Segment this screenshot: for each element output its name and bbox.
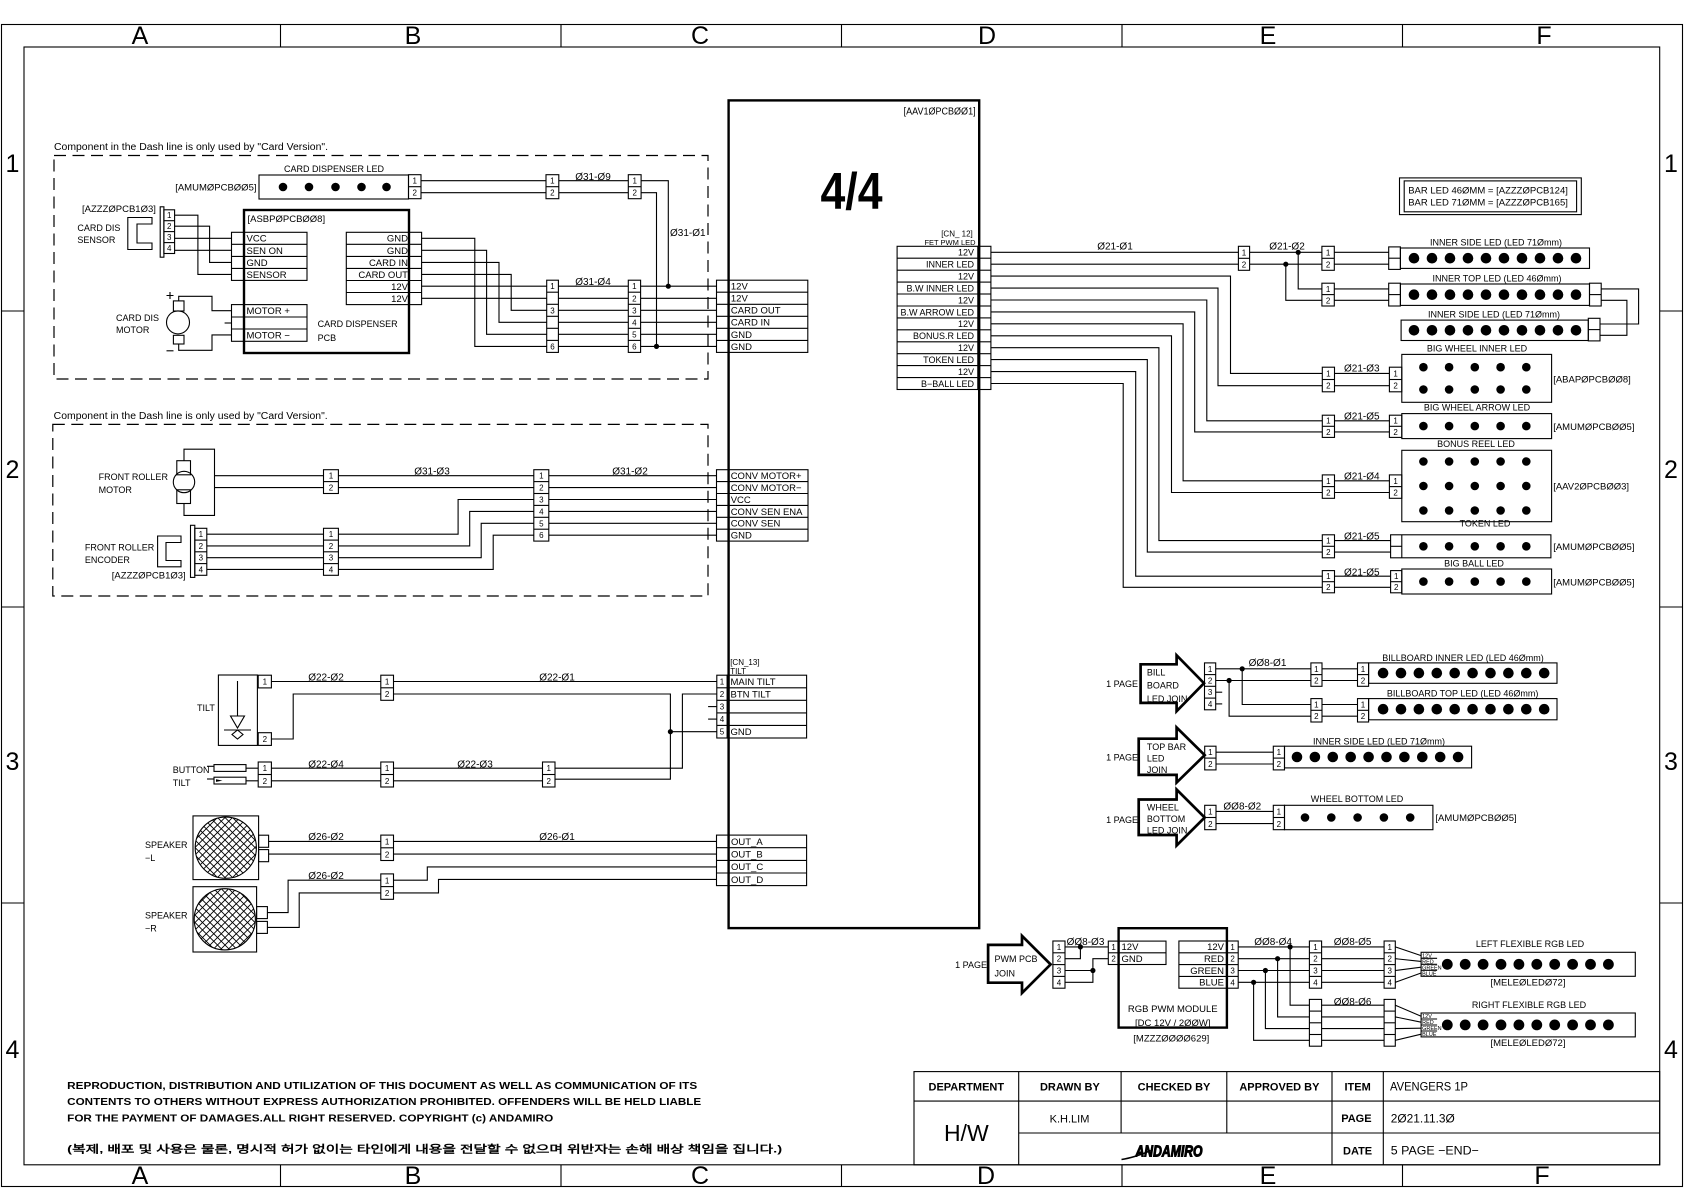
wire branch to top led block pin2 — [1229, 681, 1311, 717]
svg-text:BAR LED 46ØMM = [AZZZØPCB124]: BAR LED 46ØMM = [AZZZØPCB124] — [1408, 186, 1568, 197]
svg-text:2: 2 — [1326, 260, 1331, 269]
svg-text:OUT_A: OUT_A — [731, 837, 763, 848]
svg-text:2: 2 — [550, 189, 555, 198]
LED panel BIG WHEEL INNER LED ABAP0PCB008 — [1389, 344, 1630, 403]
svg-text:2: 2 — [412, 189, 417, 198]
wire CN_12 row4 B.W INNER to 021-03 — [991, 288, 1322, 386]
svg-text:1: 1 — [1230, 943, 1235, 952]
svg-text:1: 1 — [632, 282, 637, 291]
svg-text:INNER SIDE LED (LED 71Ømm): INNER SIDE LED (LED 71Ømm) — [1313, 736, 1445, 746]
connector CN_12 FET PWM LED header — [924, 230, 976, 248]
wire CN_12 row7 12V to 021-04 — [991, 324, 1322, 481]
svg-text:BLUE: BLUE — [1422, 972, 1437, 978]
billboard join pins 1-4 — [1205, 663, 1216, 710]
svg-text:D: D — [978, 22, 996, 50]
svg-text:4: 4 — [167, 244, 172, 253]
svg-text:4: 4 — [1057, 978, 1062, 987]
svg-text:PWM PCB: PWM PCB — [995, 954, 1038, 964]
RGB PWM MODULE box MZZZ0000629 — [1119, 928, 1227, 1044]
svg-text:2: 2 — [1111, 955, 1116, 964]
svg-text:B−BALL LED: B−BALL LED — [921, 379, 974, 389]
svg-text:JOIN: JOIN — [1147, 765, 1168, 775]
connector 021-02 block — [1322, 246, 1334, 270]
connector CN_13 TILT header — [730, 658, 759, 676]
svg-text:BONUS REEL LED: BONUS REEL LED — [1437, 439, 1515, 449]
svg-text:2: 2 — [1361, 712, 1366, 721]
net 031-01 wire pin1 down to 12V row — [641, 181, 668, 287]
PCB output rows GND/GND/CARD IN/CARD OUT/12V/12V — [346, 232, 421, 305]
svg-text:3: 3 — [1313, 967, 1318, 976]
svg-text:2: 2 — [1326, 548, 1331, 557]
TILT pin 2 — [258, 733, 271, 746]
junction billboard pin1 — [1240, 666, 1245, 671]
svg-text:BAR LED 71ØMM = [AZZZØPCB165]: BAR LED 71ØMM = [AZZZØPCB165] — [1408, 198, 1568, 209]
svg-text:CARD DIS: CARD DIS — [116, 313, 159, 323]
wires 021-02 to inner side bar 2x — [1334, 252, 1388, 264]
svg-text:MOTOR: MOTOR — [116, 325, 150, 335]
wire pwm pin3 to module GND — [1065, 959, 1108, 971]
svg-text:BUTTON: BUTTON — [173, 765, 210, 775]
svg-text:1: 1 — [550, 282, 555, 291]
svg-text:2: 2 — [1393, 428, 1398, 437]
PCB box ASBP0PCB008 CARD DISPENSER PCB — [244, 210, 409, 353]
stub billboard pin3 — [1216, 691, 1223, 693]
wire sensor pin3 to VCC row — [175, 237, 232, 239]
svg-text:4: 4 — [199, 565, 204, 574]
svg-text:B: B — [405, 22, 422, 50]
svg-text:12V: 12V — [958, 295, 974, 305]
svg-text:[AZZZØPCB1Ø3]: [AZZZØPCB1Ø3] — [112, 571, 186, 582]
svg-text:GND: GND — [387, 234, 408, 245]
wire LED pin2 to 031-09 — [421, 192, 546, 194]
svg-text:BILLBOARD TOP LED (LED 46Ømm): BILLBOARD TOP LED (LED 46Ømm) — [1387, 689, 1539, 699]
svg-text:2: 2 — [1326, 296, 1331, 305]
off-page arrow TOP BAR LED JOIN — [1106, 728, 1205, 783]
wire branch to inner top block pin1 — [1298, 252, 1322, 289]
svg-text:[AMUMØPCBØØ5]: [AMUMØPCBØØ5] — [1553, 422, 1634, 433]
svg-text:1 PAGE: 1 PAGE — [1106, 815, 1138, 825]
svg-text:CARD DISPENSER LED: CARD DISPENSER LED — [284, 164, 385, 174]
wire motor to 031-03 pin2 — [215, 487, 324, 489]
svg-text:2: 2 — [1314, 677, 1319, 686]
svg-text:SPEAKER: SPEAKER — [145, 911, 188, 921]
wire plug to 022-04 2x — [246, 768, 258, 781]
svg-text:3: 3 — [550, 306, 555, 315]
connector 031-09 block B — [628, 175, 641, 199]
svg-text:2: 2 — [546, 777, 551, 786]
PCB input rows VCC/SEN ON/GND/SENSOR — [232, 232, 308, 280]
connector 008-04 block — [1309, 941, 1321, 988]
wire CN_12 row10 TOKEN to 021-05 — [991, 360, 1322, 552]
wire 026-01 to OUT_B — [394, 853, 717, 855]
wire PCB GND2 to 031-04 pin5 — [422, 250, 547, 334]
svg-text:FOR THE PAYMENT OF DAMAGES.ALL: FOR THE PAYMENT OF DAMAGES.ALL RIGHT RES… — [67, 1113, 553, 1125]
svg-text:GND: GND — [387, 246, 408, 257]
svg-text:5: 5 — [632, 330, 637, 339]
svg-text:2: 2 — [1393, 489, 1398, 498]
svg-text:E: E — [1260, 22, 1277, 50]
junction on GND row — [654, 344, 659, 349]
svg-text:VCC: VCC — [247, 234, 267, 245]
svg-text:2: 2 — [1208, 760, 1213, 769]
svg-text:TILT: TILT — [197, 703, 215, 713]
svg-text:4: 4 — [1387, 978, 1392, 987]
svg-text:ØØ8-Ø1: ØØ8-Ø1 — [1249, 658, 1287, 669]
svg-text:1 PAGE: 1 PAGE — [1106, 753, 1138, 763]
svg-text:1: 1 — [1326, 537, 1331, 546]
svg-text:1: 1 — [1277, 808, 1282, 817]
svg-text:2: 2 — [539, 484, 544, 493]
svg-text:ØØ8-Ø4: ØØ8-Ø4 — [1254, 937, 1292, 948]
connector 031-04 block A — [547, 280, 559, 352]
top band separators — [281, 25, 1403, 48]
wire encoder 4 to 031-02 pin6 — [338, 535, 533, 569]
wire billboard pin2 to block — [1216, 680, 1311, 682]
wire CN_12 row5 12V to 021-05 arrow — [991, 300, 1322, 421]
connector 021-05 bigball block — [1322, 571, 1334, 593]
wires 008-05 fan to left rgb bar 4x — [1395, 947, 1421, 982]
svg-text:2: 2 — [1326, 489, 1331, 498]
wire CN_12 row6 B.W ARROW to 021-05 — [991, 312, 1322, 432]
wire module RED to 008-04 — [1238, 958, 1309, 960]
svg-text:AVENGERS 1P: AVENGERS 1P — [1390, 1080, 1468, 1094]
LED bar BILLBOARD TOP LED (LED 460mm) — [1358, 689, 1558, 722]
svg-text:12V: 12V — [731, 294, 749, 305]
svg-text:C: C — [691, 1162, 709, 1190]
connector 008-05 block — [1384, 941, 1395, 988]
svg-text:OUT_C: OUT_C — [731, 862, 763, 873]
LED bar AMUM0PCB005 CARD DISPENSER LED — [175, 164, 408, 199]
wires 021-05 to token bar 2x — [1335, 541, 1391, 553]
svg-text:2: 2 — [1326, 583, 1331, 592]
svg-text:GND: GND — [731, 330, 752, 341]
wires 031-04 A to B 6x — [558, 286, 628, 346]
wire motor to 031-03 pin1 — [215, 475, 324, 477]
svg-text:4: 4 — [1208, 700, 1213, 709]
svg-text:TILT: TILT — [730, 667, 746, 676]
wire encoder 2 to 031-02 pin4 — [338, 511, 533, 546]
svg-text:3: 3 — [1387, 967, 1392, 976]
svg-text:2: 2 — [1387, 955, 1392, 964]
svg-text:LED JOIN: LED JOIN — [1147, 694, 1188, 704]
svg-text:1: 1 — [6, 150, 20, 178]
svg-text:1: 1 — [539, 472, 544, 481]
wire pwm pin4 to junction — [1065, 971, 1093, 983]
svg-text:1: 1 — [1277, 748, 1282, 757]
wire billboard pin1 to block — [1216, 668, 1311, 670]
svg-text:OUT_D: OUT_D — [731, 875, 763, 886]
TILT switch symbol — [197, 675, 257, 745]
svg-text:1: 1 — [1313, 943, 1318, 952]
connector 031-03 — [324, 470, 339, 494]
wire button pin1 up to BTN TILT row — [555, 694, 717, 768]
svg-text:1 PAGE: 1 PAGE — [1106, 679, 1138, 689]
svg-text:2: 2 — [1326, 382, 1331, 391]
svg-text:B: B — [405, 1162, 422, 1190]
svg-text:1: 1 — [720, 678, 725, 687]
wire pwm pin1 to module 12V — [1065, 946, 1108, 948]
svg-text:1: 1 — [1326, 477, 1331, 486]
svg-text:[MELEØLEDØ72]: [MELEØLEDØ72] — [1491, 1038, 1566, 1049]
note: card version dash box 2 — [53, 411, 708, 596]
LED bar LEFT FLEXIBLE RGB LED MELE0LED072 — [1421, 939, 1635, 989]
svg-text:TILT: TILT — [173, 778, 191, 788]
logo ANDAMIRO — [1122, 1144, 1203, 1161]
svg-text:12V: 12V — [1207, 942, 1225, 953]
svg-text:2: 2 — [1314, 712, 1319, 721]
wires 022-04 to 022-03 2x — [271, 768, 380, 781]
svg-text:CARD IN: CARD IN — [369, 258, 408, 269]
wire PCB 12V to 031-04 pin2 — [422, 297, 547, 299]
svg-text:1: 1 — [385, 876, 390, 885]
svg-text:4: 4 — [1664, 1036, 1678, 1064]
svg-text:2: 2 — [1664, 456, 1678, 484]
svg-text:B.W ARROW LED: B.W ARROW LED — [900, 307, 974, 317]
svg-text:Ø31-Ø9: Ø31-Ø9 — [575, 172, 611, 183]
svg-text:2: 2 — [1208, 820, 1213, 829]
svg-text:1: 1 — [199, 530, 204, 539]
svg-text:−R: −R — [145, 924, 157, 934]
wire 026-02 R pin2 to OUT_D — [394, 879, 717, 893]
svg-text:1: 1 — [546, 764, 551, 773]
svg-text:4: 4 — [329, 565, 334, 574]
legal notice text — [67, 1080, 782, 1156]
title block grid — [914, 1072, 1660, 1165]
svg-text:PCB: PCB — [318, 333, 337, 343]
motor M1 CARD DIS MOTOR — [116, 292, 190, 351]
wires 021-04 to bonus reel 2x — [1335, 481, 1390, 493]
wire CN_12 INNER LED to 021-01 — [991, 263, 1239, 265]
module input rows 12V/GND — [1119, 941, 1166, 965]
svg-text:1: 1 — [167, 211, 172, 220]
svg-text:5: 5 — [539, 519, 544, 528]
svg-text:12V: 12V — [958, 319, 974, 329]
svg-text:2: 2 — [199, 542, 204, 551]
wire 12V branch down to 008-06 — [1290, 947, 1309, 1005]
svg-text:LED: LED — [1147, 753, 1165, 763]
svg-text:B.W INNER LED: B.W INNER LED — [906, 284, 974, 294]
svg-text:1: 1 — [1393, 369, 1398, 378]
svg-text:BOARD: BOARD — [1147, 681, 1180, 691]
wires to inner top bar 2x — [1334, 289, 1388, 300]
svg-text:MOTOR +: MOTOR + — [247, 306, 291, 317]
left band separators — [2, 311, 25, 903]
wires 022-03 to block B 2x — [394, 768, 543, 781]
stub billboard pin4 — [1216, 703, 1223, 705]
svg-text:WHEEL: WHEEL — [1147, 802, 1179, 812]
CN_12 rows table — [897, 246, 978, 389]
svg-text:MOTOR −: MOTOR − — [247, 331, 291, 342]
svg-text:[AMUMØPCBØØ5]: [AMUMØPCBØØ5] — [1435, 813, 1516, 824]
right band separators — [1660, 311, 1683, 903]
wire TILT pin1 to 022-02 — [271, 681, 380, 683]
svg-text:ANDAMIRO: ANDAMIRO — [1135, 1144, 1203, 1161]
svg-text:ØØ8-Ø3: ØØ8-Ø3 — [1067, 937, 1105, 948]
wires 031-03 to 031-02 2x — [338, 476, 533, 488]
connector CN_13 pin column — [717, 675, 727, 738]
junction 12V branch — [1296, 250, 1301, 255]
wheel bottom join pins 1-2 — [1205, 805, 1216, 829]
svg-text:[MZZZØØØØ629]: [MZZZØØØØ629] — [1133, 1034, 1209, 1045]
junction pwm pin1 — [1078, 944, 1083, 949]
svg-text:1: 1 — [1057, 943, 1062, 952]
svg-text:BOTTOM: BOTTOM — [1147, 814, 1185, 824]
svg-text:12V: 12V — [958, 367, 974, 377]
svg-text:[MELEØLEDØ72]: [MELEØLEDØ72] — [1491, 978, 1566, 989]
connector 008-06 block B — [1384, 999, 1395, 1046]
encoder connector housing — [158, 536, 181, 567]
svg-text:1: 1 — [412, 177, 417, 186]
svg-text:RED: RED — [1204, 954, 1224, 965]
svg-text:CONV MOTOR−: CONV MOTOR− — [731, 483, 802, 494]
wires top mid block to bar conn 2x — [1322, 705, 1358, 717]
wire inner top out2 to bar3 — [1600, 300, 1627, 335]
svg-text:CONV SEN ENA: CONV SEN ENA — [731, 507, 803, 518]
svg-text:1: 1 — [1326, 572, 1331, 581]
svg-text:12V: 12V — [958, 343, 974, 353]
svg-text:6: 6 — [632, 342, 637, 351]
wire speakerL pin1 to 026-02 — [269, 840, 381, 842]
svg-text:[AMUMØPCBØØ5]: [AMUMØPCBØØ5] — [1553, 578, 1634, 589]
svg-text:RIGHT FLEXIBLE RGB LED: RIGHT FLEXIBLE RGB LED — [1472, 1000, 1587, 1010]
svg-text:CONV SEN: CONV SEN — [731, 519, 781, 530]
svg-text:[AAV1ØPCBØØ1]: [AAV1ØPCBØØ1] — [904, 107, 976, 118]
svg-text:SENSOR: SENSOR — [247, 270, 287, 281]
speaker SPEAKER-L — [145, 816, 269, 880]
svg-text:D: D — [977, 1162, 995, 1190]
wires wheel bottom join to conn 2x — [1216, 811, 1273, 823]
svg-text:(복제, 배포 및 사용은 물론, 명시적 허가 없이는 타: (복제, 배포 및 사용은 물론, 명시적 허가 없이는 타인에게 내용을 전달… — [67, 1143, 782, 1156]
wire CN_12 row9 12V to 021-05 token — [991, 348, 1322, 541]
off-page arrow PWM PCB JOIN — [955, 936, 1050, 993]
svg-text:5: 5 — [720, 728, 725, 737]
svg-text:REPRODUCTION, DISTRIBUTION AND: REPRODUCTION, DISTRIBUTION AND UTILIZATI… — [67, 1080, 697, 1092]
wire PCB 12V to 031-04 pin1 — [422, 285, 547, 287]
wires 031-02 to CONV rows 6x — [549, 476, 717, 536]
svg-text:[AZZZØPCB1Ø3]: [AZZZØPCB1Ø3] — [82, 204, 156, 215]
svg-text:2: 2 — [1057, 955, 1062, 964]
svg-text:FRONT ROLLER: FRONT ROLLER — [99, 472, 169, 482]
LED bar TOKEN LED AMUM0PCB005 — [1391, 519, 1635, 558]
junction BLUE branch — [1251, 980, 1256, 985]
junction GND row CN_13 — [668, 729, 673, 734]
wire 031-09 pin1 — [559, 180, 629, 182]
svg-text:BLUE: BLUE — [1422, 1032, 1437, 1038]
svg-text:Ø26-Ø2: Ø26-Ø2 — [308, 832, 344, 843]
svg-text:2: 2 — [329, 542, 334, 551]
module output pins 1-4 — [1227, 941, 1238, 988]
svg-text:DEPARTMENT: DEPARTMENT — [929, 1082, 1005, 1094]
connector inner top block — [1322, 283, 1334, 306]
svg-text:1: 1 — [329, 472, 334, 481]
CN_12 pin column — [978, 246, 991, 389]
svg-text:WHEEL BOTTOM LED: WHEEL BOTTOM LED — [1311, 794, 1404, 804]
wire TILT pin2 up to 022-02 pin2 — [271, 694, 380, 739]
svg-text:H/W: H/W — [944, 1120, 989, 1146]
svg-text:1: 1 — [385, 677, 390, 686]
wire speakerL pin2 to 026-02 — [269, 853, 381, 855]
wires mid block to bar conn 2x — [1322, 669, 1358, 681]
svg-text:1: 1 — [1393, 417, 1398, 426]
svg-text:1: 1 — [1326, 248, 1331, 257]
svg-text:GND: GND — [731, 531, 752, 542]
svg-text:2: 2 — [1277, 760, 1282, 769]
svg-text:1: 1 — [1326, 417, 1331, 426]
svg-text:3: 3 — [1664, 748, 1678, 776]
wire sensor pin2 to GND row — [175, 226, 232, 262]
svg-text:MOTOR: MOTOR — [99, 485, 133, 495]
svg-text:2: 2 — [1242, 260, 1247, 269]
svg-text:1: 1 — [263, 677, 268, 686]
svg-text:1: 1 — [1208, 665, 1213, 674]
wire 021-01 pin2 to 021-02 — [1250, 263, 1322, 265]
LED bar BILLBOARD INNER LED (LED 460mm) — [1358, 653, 1558, 686]
connector encoder block 1-4 — [324, 528, 339, 575]
svg-text:PAGE: PAGE — [1341, 1113, 1371, 1125]
svg-text:DATE: DATE — [1343, 1146, 1372, 1158]
svg-text:GREEN: GREEN — [1190, 966, 1224, 977]
connector 021-01 — [1238, 246, 1249, 270]
svg-text:4: 4 — [632, 318, 637, 327]
wire branch to inner top block pin2 — [1286, 264, 1322, 300]
svg-text:INNER SIDE LED (LED 71Ømm): INNER SIDE LED (LED 71Ømm) — [1430, 238, 1562, 248]
wire 022-01 to MAIN TILT — [394, 681, 717, 683]
svg-text:TOP BAR: TOP BAR — [1147, 742, 1187, 752]
svg-text:CARD DIS: CARD DIS — [77, 223, 120, 233]
svg-text:1: 1 — [1664, 150, 1678, 178]
svg-text:3: 3 — [539, 496, 544, 505]
svg-text:BONUS.R LED: BONUS.R LED — [913, 331, 975, 341]
pwm join pins 1-4 — [1053, 941, 1065, 988]
wire PCB CARD OUT to 031-04 pin3 — [422, 274, 547, 310]
svg-text:[AMUMØPCBØØ5]: [AMUMØPCBØØ5] — [175, 183, 256, 194]
wire PCB GND1 to 031-04 pin6 — [422, 238, 547, 346]
svg-text:Ø21-Ø5: Ø21-Ø5 — [1344, 568, 1380, 579]
junction on 12V row — [666, 284, 671, 289]
svg-text:K.H.LIM: K.H.LIM — [1050, 1114, 1090, 1126]
junction RED branch — [1275, 956, 1280, 961]
svg-text:BILL: BILL — [1147, 668, 1166, 678]
svg-text:[CN_13]: [CN_13] — [730, 658, 759, 667]
svg-text:Component in the Dash line is: Component in the Dash line is only used … — [54, 142, 328, 153]
connector 021-05 token block — [1322, 535, 1334, 558]
svg-text:4: 4 — [539, 507, 544, 516]
svg-text:LED JOIN: LED JOIN — [1147, 825, 1188, 835]
svg-text:GND: GND — [731, 727, 752, 738]
svg-text:Component in the Dash line is: Component in the Dash line is only used … — [54, 411, 328, 422]
top bar join pins 1-2 — [1205, 746, 1216, 770]
svg-text:INNER TOP LED (LED 46Ømm): INNER TOP LED (LED 46Ømm) — [1432, 274, 1561, 284]
svg-text:CARD DISPENSER: CARD DISPENSER — [318, 319, 399, 329]
svg-text:VCC: VCC — [731, 495, 751, 506]
wire speakerR pin2 up to 026-02 R — [267, 893, 380, 928]
svg-text:JOIN: JOIN — [995, 969, 1016, 979]
wire module BLUE to 008-04 — [1238, 981, 1309, 983]
svg-text:1: 1 — [1394, 572, 1399, 581]
wire BLUE branch down to 008-06 — [1254, 982, 1310, 1040]
svg-text:12V: 12V — [958, 272, 974, 282]
svg-text:3: 3 — [1230, 967, 1235, 976]
svg-text:2Ø21.11.3Ø: 2Ø21.11.3Ø — [1391, 1112, 1455, 1126]
connector 022-03 block B — [543, 762, 556, 787]
svg-text:[ABAPØPCBØØ8]: [ABAPØPCBØØ8] — [1553, 375, 1631, 386]
svg-text:1: 1 — [1208, 748, 1213, 757]
wire PCB CARD IN to 031-04 pin4 — [422, 262, 547, 322]
note: card version dash box 1 — [54, 142, 708, 379]
svg-text:Ø22-Ø2: Ø22-Ø2 — [308, 673, 344, 684]
svg-text:5 PAGE −END−: 5 PAGE −END− — [1391, 1144, 1479, 1158]
svg-text:1: 1 — [1208, 808, 1213, 817]
